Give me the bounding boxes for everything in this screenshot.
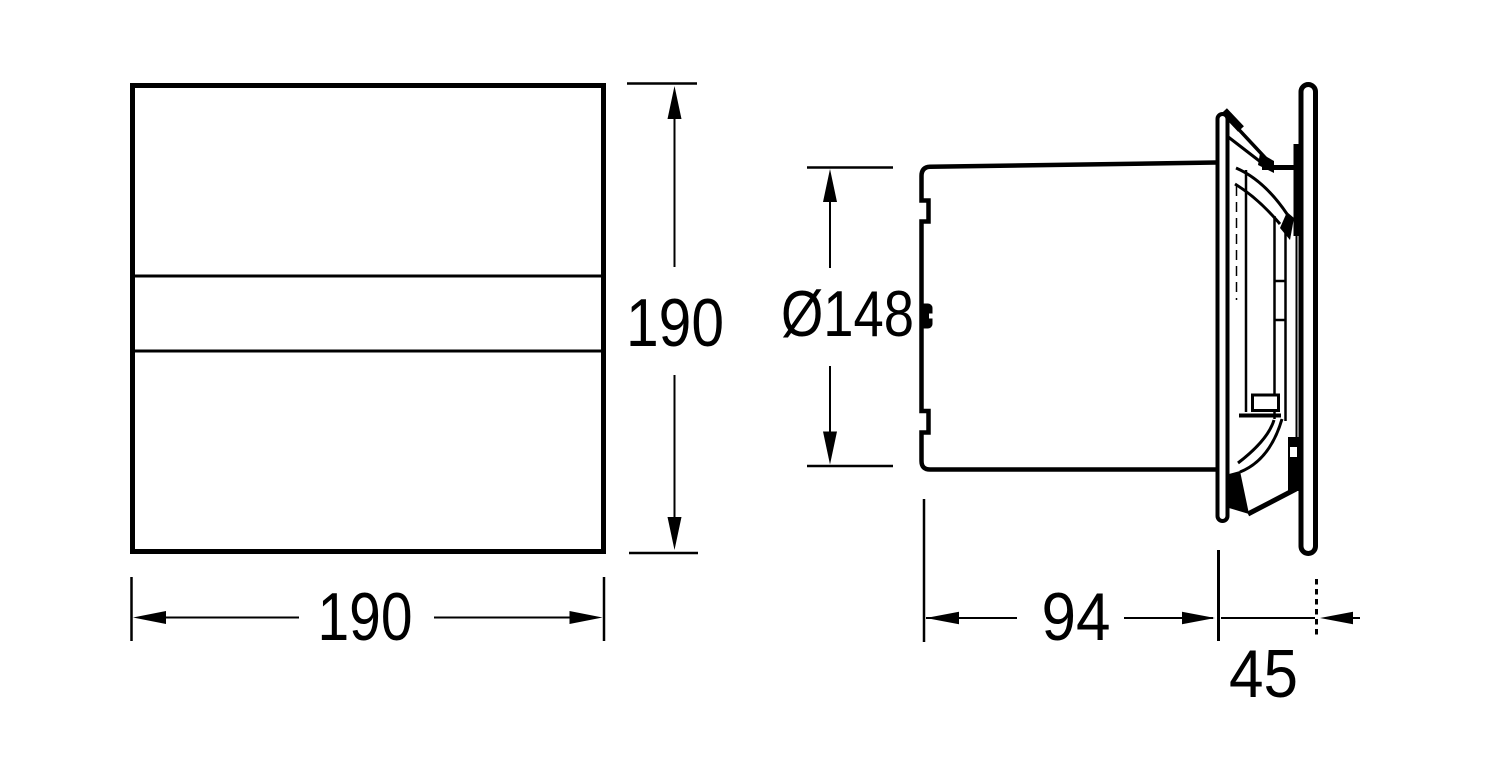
svg-text:190: 190	[626, 285, 724, 361]
svg-text:Ø148: Ø148	[781, 277, 914, 350]
svg-text:190: 190	[318, 579, 413, 655]
svg-text:94: 94	[1042, 579, 1111, 655]
svg-text:45: 45	[1229, 636, 1298, 712]
